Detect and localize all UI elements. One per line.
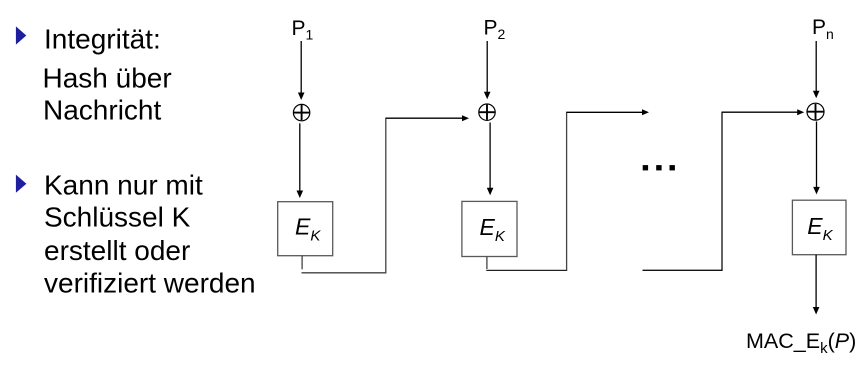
svg-text:erstellt oder: erstellt oder	[44, 235, 190, 266]
bullet triangle 1	[16, 26, 26, 44]
wire XOR3 to EK box 3	[813, 122, 820, 195]
wire feedback1 bottom horizontal	[302, 272, 387, 274]
wire XOR1 to EK box 1	[297, 123, 304, 198]
svg-text:Hash über: Hash über	[43, 63, 172, 94]
wire P1 to XOR1	[298, 41, 305, 100]
block EK3	[792, 200, 846, 255]
bullet triangle 2	[16, 175, 27, 193]
svg-text:MAC_Ek(P): MAC_Ek(P)	[746, 329, 856, 357]
wire feedback1 top arrow into XOR2	[386, 115, 469, 121]
xor XOR2	[479, 104, 495, 120]
dots ellipsis	[643, 165, 675, 170]
svg-text:Integrität:: Integrität:	[44, 24, 161, 55]
wire feedback3 top arrow into XOR3	[722, 109, 804, 115]
svg-text:Kann nur mit: Kann nur mit	[44, 169, 203, 200]
svg-text:Nachricht: Nachricht	[43, 95, 161, 126]
block EK2	[462, 201, 517, 256]
wire stub below EK2	[486, 257, 488, 270]
xor XOR3	[807, 103, 824, 120]
wire feedback2 top arrow toward dots	[567, 109, 649, 115]
svg-text:Schlüssel K: Schlüssel K	[44, 202, 191, 233]
wire feedback2 bottom horizontal	[486, 269, 567, 271]
wire feedback3 riser	[721, 112, 723, 271]
wire Pn to XOR3	[813, 41, 820, 98]
wire feedback3 bottom horizontal	[643, 269, 723, 271]
svg-text:verifiziert werden: verifiziert werden	[44, 268, 256, 299]
wire feedback2 riser	[566, 112, 568, 271]
block EK1	[278, 202, 333, 256]
wire feedback1 riser	[385, 118, 387, 273]
wire stub below EK1	[301, 256, 303, 270]
wire EK3 to MAC output	[813, 255, 820, 315]
wire P2 to XOR2	[484, 41, 491, 99]
wire XOR2 to EK box 2	[487, 123, 494, 196]
xor XOR1	[293, 104, 309, 120]
